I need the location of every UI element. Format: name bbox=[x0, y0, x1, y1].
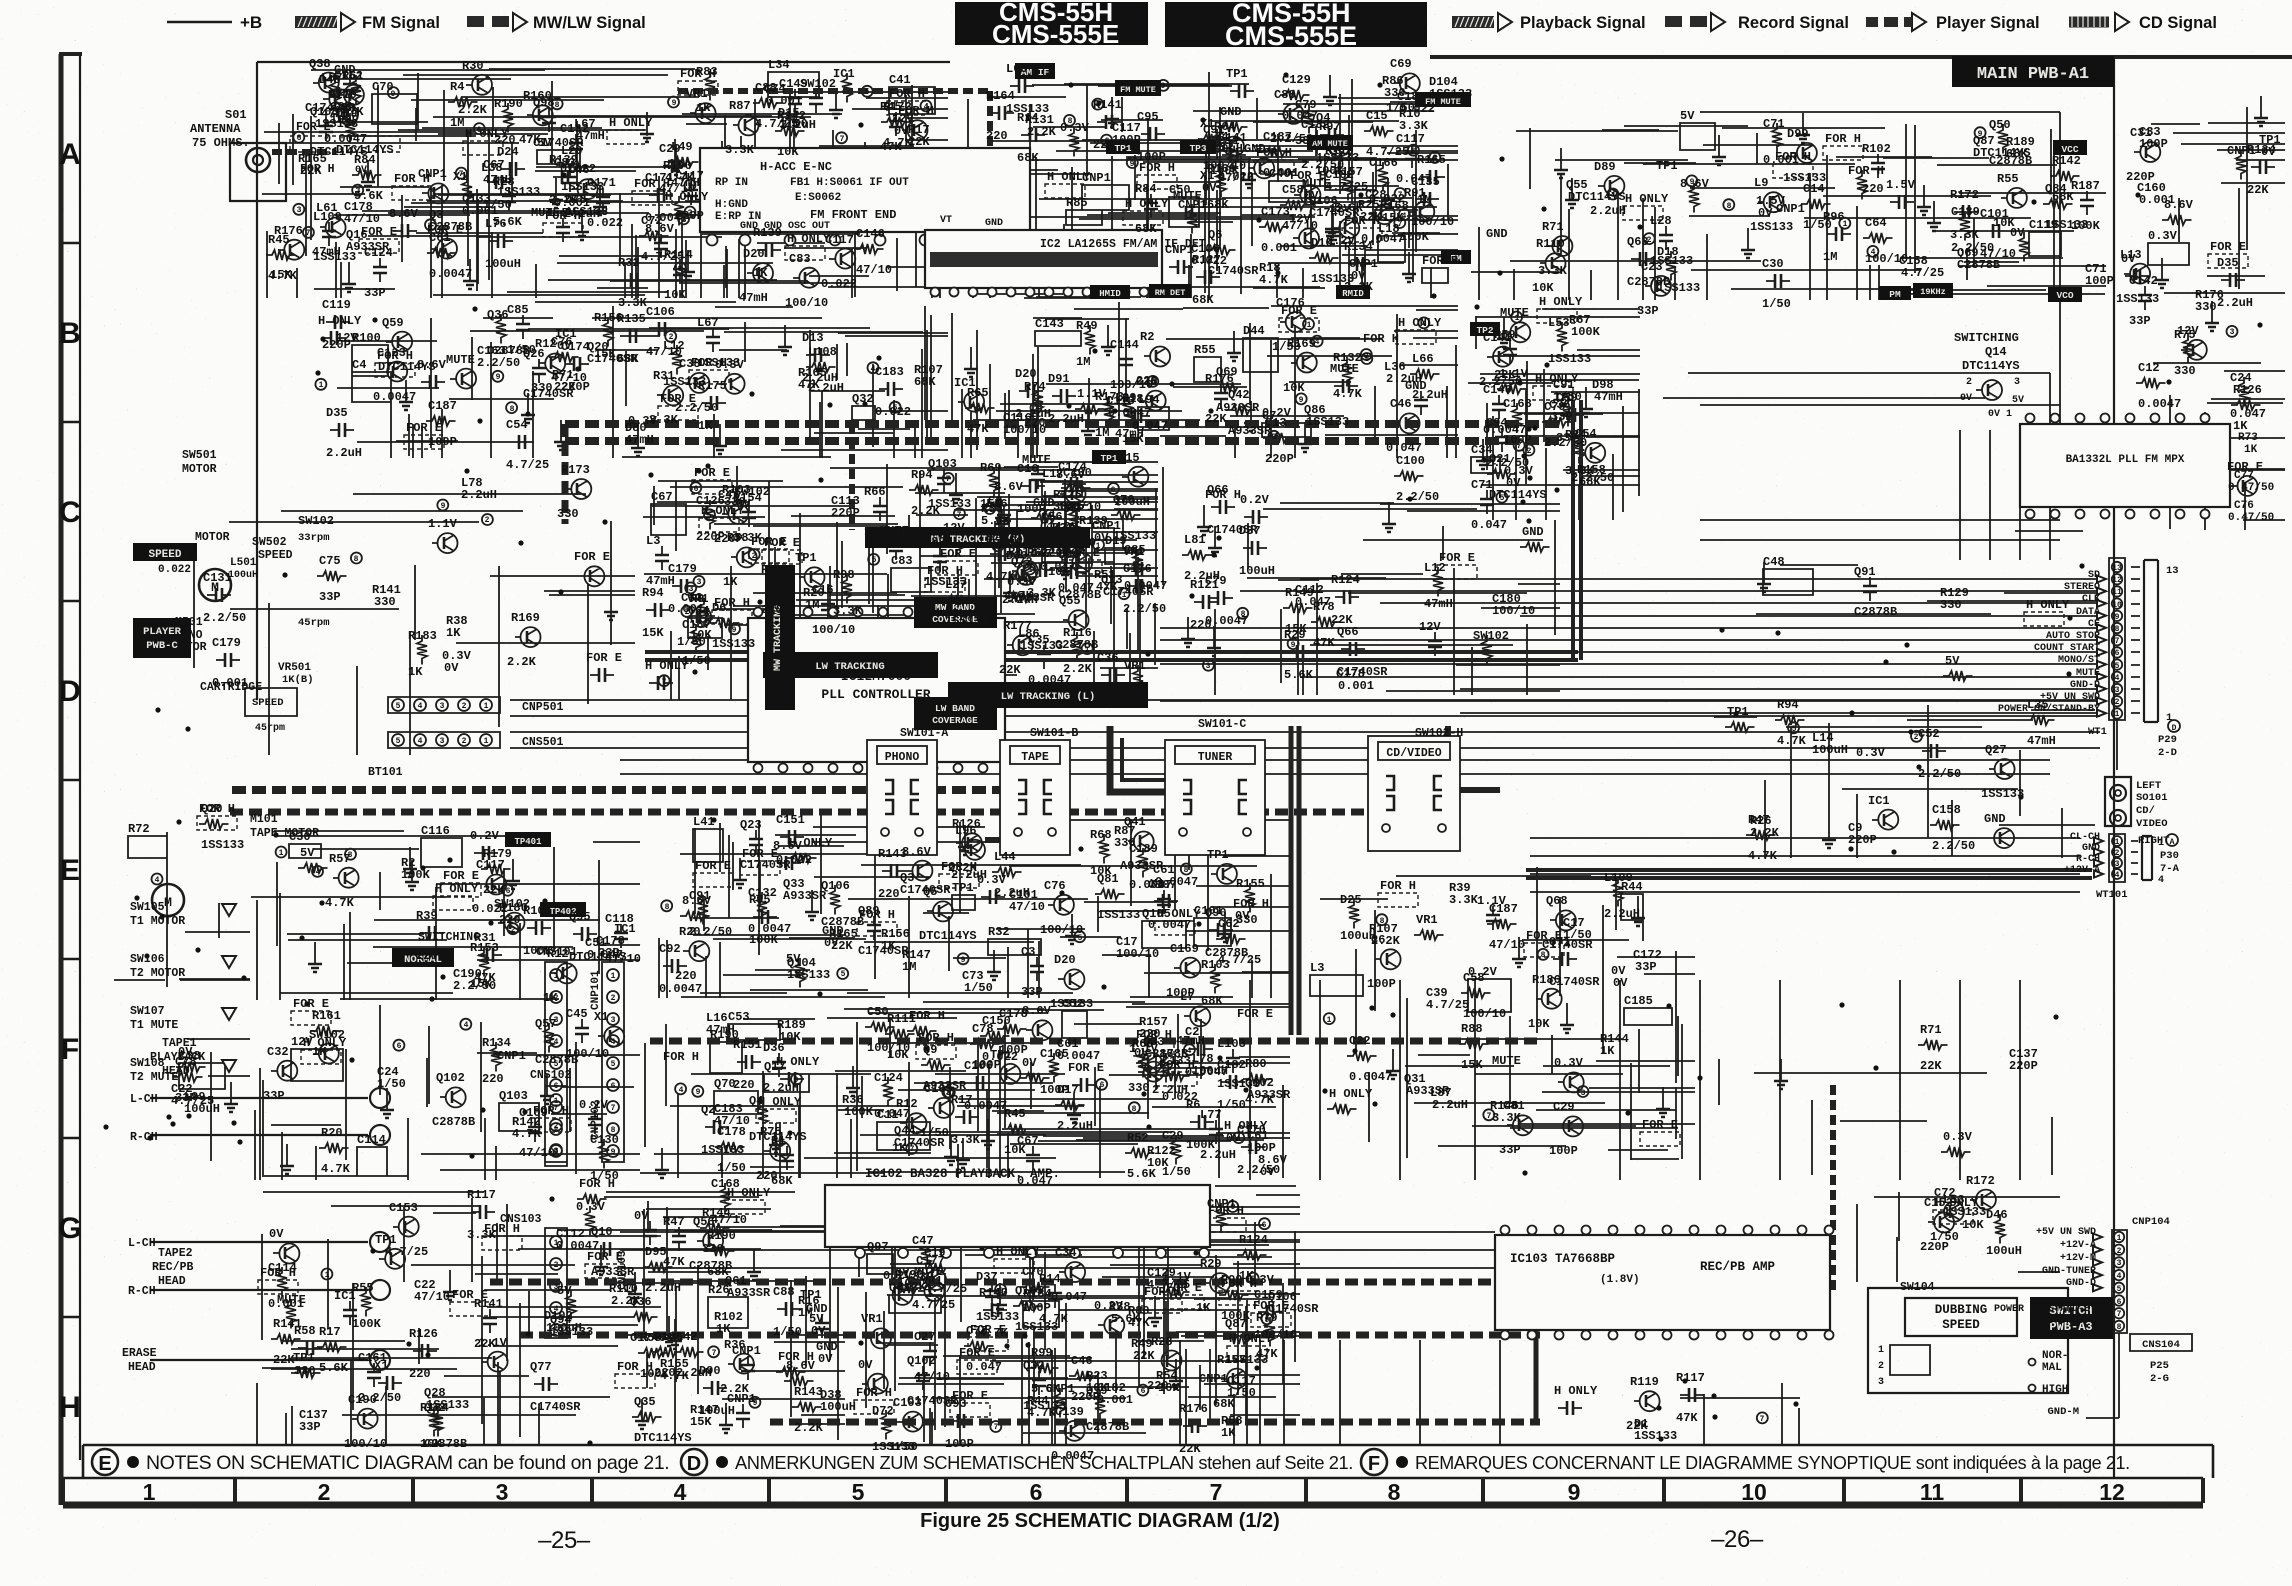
svg-text:L41: L41 bbox=[693, 815, 715, 829]
svg-text:SW102: SW102 bbox=[1473, 629, 1509, 643]
svg-text:L3: L3 bbox=[1310, 961, 1324, 975]
svg-text:3.3K: 3.3K bbox=[1565, 464, 1595, 478]
svg-text:6: 6 bbox=[2115, 649, 2120, 658]
svg-text:220: 220 bbox=[733, 1078, 755, 1092]
svg-text:5.6K: 5.6K bbox=[319, 1361, 349, 1375]
svg-text:FOR H: FOR H bbox=[1344, 214, 1380, 228]
svg-text:4: 4 bbox=[679, 1086, 684, 1095]
svg-text:3: 3 bbox=[2115, 686, 2120, 695]
svg-text:0.3V: 0.3V bbox=[1943, 1130, 1973, 1144]
svg-text:7: 7 bbox=[946, 475, 951, 484]
svg-text:3: 3 bbox=[2115, 860, 2120, 869]
svg-text:L65: L65 bbox=[1006, 62, 1028, 76]
svg-text:FOR H: FOR H bbox=[927, 564, 963, 578]
svg-text:0V: 0V bbox=[2010, 226, 2025, 240]
svg-text:8.6V: 8.6V bbox=[389, 207, 419, 221]
svg-text:9: 9 bbox=[441, 502, 446, 511]
svg-text:C123: C123 bbox=[377, 346, 406, 360]
svg-text:C2878B: C2878B bbox=[1058, 588, 1101, 602]
svg-text:1K: 1K bbox=[892, 1141, 907, 1155]
svg-text:Q41: Q41 bbox=[889, 1281, 911, 1295]
svg-text:FOR H: FOR H bbox=[909, 1009, 945, 1023]
svg-text:3: 3 bbox=[2230, 328, 2235, 337]
svg-text:DTC114YS: DTC114YS bbox=[1568, 190, 1626, 204]
svg-text:PLAYER: PLAYER bbox=[143, 626, 182, 638]
svg-text:R57: R57 bbox=[329, 852, 351, 866]
svg-text:C92: C92 bbox=[659, 942, 681, 956]
svg-text:2.2uH: 2.2uH bbox=[645, 1281, 681, 1295]
svg-text:2.2/50: 2.2/50 bbox=[1486, 456, 1529, 470]
svg-text:0.2V: 0.2V bbox=[470, 829, 500, 843]
svg-text:45rpm: 45rpm bbox=[298, 617, 330, 629]
svg-text:R156: R156 bbox=[594, 311, 623, 325]
svg-text:1/50: 1/50 bbox=[964, 981, 993, 995]
svg-text:4: 4 bbox=[2115, 674, 2120, 683]
svg-text:33rpm: 33rpm bbox=[298, 532, 330, 544]
svg-text:220: 220 bbox=[761, 603, 783, 617]
svg-text:100P: 100P bbox=[1017, 502, 1046, 516]
svg-text:FOR E: FOR E bbox=[1068, 1061, 1104, 1075]
svg-text:C40: C40 bbox=[1269, 167, 1291, 181]
svg-text:C117: C117 bbox=[476, 858, 505, 872]
svg-text:0.2V: 0.2V bbox=[1094, 1299, 1124, 1313]
svg-text:C165: C165 bbox=[1040, 1047, 1069, 1061]
svg-text:CNP101: CNP101 bbox=[590, 970, 602, 1010]
svg-text:10K: 10K bbox=[777, 145, 799, 159]
svg-text:1: 1 bbox=[2158, 838, 2164, 849]
svg-text:0.3V: 0.3V bbox=[1060, 121, 1090, 135]
svg-text:9: 9 bbox=[794, 1076, 799, 1085]
svg-text:R173: R173 bbox=[561, 463, 590, 477]
svg-text:0.047: 0.047 bbox=[2230, 407, 2266, 421]
svg-text:0.0047: 0.0047 bbox=[1349, 1070, 1392, 1084]
svg-text:2.2K: 2.2K bbox=[1027, 125, 1057, 139]
svg-text:TP1: TP1 bbox=[795, 551, 817, 565]
svg-text:D: D bbox=[59, 675, 81, 708]
svg-text:R99: R99 bbox=[1031, 1346, 1053, 1360]
svg-text:2: 2 bbox=[462, 702, 467, 711]
svg-text:8.6V: 8.6V bbox=[2164, 198, 2194, 212]
svg-text:C130: C130 bbox=[1063, 466, 1092, 480]
svg-text:L53: L53 bbox=[1548, 316, 1570, 330]
svg-text:R161: R161 bbox=[312, 1009, 341, 1023]
svg-text:9: 9 bbox=[1978, 130, 1983, 139]
svg-text:SW106: SW106 bbox=[130, 953, 165, 966]
svg-text:6: 6 bbox=[611, 1082, 616, 1091]
svg-text:D91: D91 bbox=[1048, 372, 1070, 386]
svg-text:SW101-B: SW101-B bbox=[1030, 727, 1078, 740]
svg-text:R66: R66 bbox=[864, 485, 886, 499]
svg-text:C35: C35 bbox=[1136, 375, 1158, 389]
svg-text:R31: R31 bbox=[474, 931, 496, 945]
svg-text:2.2uH: 2.2uH bbox=[994, 886, 1030, 900]
svg-text:0.3V: 0.3V bbox=[1856, 746, 1886, 760]
svg-text:1M: 1M bbox=[902, 960, 916, 974]
svg-text:2.2/50: 2.2/50 bbox=[203, 611, 246, 625]
svg-text:FOR H: FOR H bbox=[941, 860, 977, 874]
svg-text:C173: C173 bbox=[1261, 205, 1290, 219]
svg-text:C116: C116 bbox=[421, 824, 450, 838]
svg-text:2.2/50: 2.2/50 bbox=[1479, 375, 1522, 389]
svg-text:FOR H: FOR H bbox=[680, 67, 716, 81]
svg-text:H ONLY: H ONLY bbox=[1329, 1087, 1373, 1101]
svg-text:C83: C83 bbox=[789, 252, 811, 266]
svg-text:12V: 12V bbox=[943, 521, 965, 535]
svg-text:R176: R176 bbox=[1179, 1402, 1208, 1416]
svg-text:RP IN: RP IN bbox=[715, 177, 748, 189]
svg-text:1: 1 bbox=[554, 972, 559, 981]
svg-text:3.3K: 3.3K bbox=[1950, 228, 1980, 242]
svg-text:R61: R61 bbox=[1027, 546, 1049, 560]
svg-text:1K: 1K bbox=[716, 1322, 731, 1336]
svg-text:FOR H: FOR H bbox=[579, 1177, 615, 1191]
svg-text:C141: C141 bbox=[1483, 331, 1512, 345]
svg-text:1SS133: 1SS133 bbox=[2045, 218, 2088, 232]
svg-text:2: 2 bbox=[1878, 1361, 1884, 1372]
svg-text:L13: L13 bbox=[2120, 248, 2142, 262]
svg-text:IC1: IC1 bbox=[334, 1289, 356, 1303]
svg-text:C177: C177 bbox=[916, 1254, 945, 1268]
svg-text:100uH: 100uH bbox=[1239, 564, 1275, 578]
svg-text:R73: R73 bbox=[2238, 432, 2258, 444]
svg-text:1M: 1M bbox=[450, 116, 464, 130]
svg-text:8: 8 bbox=[678, 265, 683, 274]
svg-text:R26: R26 bbox=[708, 1283, 730, 1297]
svg-text:C30: C30 bbox=[1762, 257, 1784, 271]
svg-text:R164: R164 bbox=[986, 89, 1015, 103]
svg-text:C131: C131 bbox=[203, 571, 232, 585]
svg-text:H ONLY: H ONLY bbox=[1398, 316, 1442, 330]
svg-text:LW BAND: LW BAND bbox=[935, 703, 975, 714]
svg-text:C83: C83 bbox=[891, 554, 913, 568]
svg-text:1/50: 1/50 bbox=[1386, 101, 1415, 115]
svg-text:Q32: Q32 bbox=[424, 1401, 446, 1415]
svg-text:IC1: IC1 bbox=[833, 67, 855, 81]
svg-text:47/10: 47/10 bbox=[914, 1370, 950, 1384]
svg-text:C: C bbox=[59, 496, 81, 529]
svg-text:LW TRACKING (L): LW TRACKING (L) bbox=[1001, 691, 1096, 703]
svg-text:1.1V: 1.1V bbox=[428, 517, 458, 531]
svg-text:1/50: 1/50 bbox=[773, 1325, 802, 1339]
svg-text:4.7/25: 4.7/25 bbox=[912, 1298, 955, 1312]
svg-text:D6: D6 bbox=[712, 601, 726, 615]
svg-text:47mH: 47mH bbox=[1424, 597, 1453, 611]
svg-text:SD: SD bbox=[2088, 570, 2100, 581]
svg-text:15K: 15K bbox=[1122, 432, 1144, 446]
svg-text:C16: C16 bbox=[1017, 462, 1039, 476]
svg-text:C4: C4 bbox=[352, 358, 366, 372]
svg-text:22K: 22K bbox=[1179, 1442, 1201, 1456]
svg-text:A933SR: A933SR bbox=[1228, 424, 1272, 438]
svg-text:C144: C144 bbox=[1110, 338, 1139, 352]
svg-text:1: 1 bbox=[2117, 1234, 2122, 1243]
svg-text:R110: R110 bbox=[1536, 237, 1565, 251]
svg-text:PLL CONTROLLER: PLL CONTROLLER bbox=[821, 687, 930, 702]
svg-text:4: 4 bbox=[2158, 875, 2164, 886]
svg-text:C189: C189 bbox=[1951, 205, 1980, 219]
svg-text:2.2/50: 2.2/50 bbox=[477, 356, 520, 370]
svg-text:33P: 33P bbox=[2129, 314, 2151, 328]
svg-text:C1740SR: C1740SR bbox=[900, 883, 951, 897]
svg-text:L9: L9 bbox=[1754, 176, 1768, 190]
svg-text:R88: R88 bbox=[1461, 1022, 1483, 1036]
svg-text:47/10: 47/10 bbox=[414, 1290, 450, 1304]
svg-text:0.047: 0.047 bbox=[1051, 1290, 1087, 1304]
svg-text:22K: 22K bbox=[908, 135, 930, 149]
svg-text:220: 220 bbox=[675, 969, 697, 983]
svg-text:FOR E: FOR E bbox=[660, 392, 696, 406]
svg-text:47mH: 47mH bbox=[576, 129, 605, 143]
svg-text:CNP501: CNP501 bbox=[522, 701, 564, 714]
svg-text:R28: R28 bbox=[493, 175, 515, 189]
svg-text:3: 3 bbox=[356, 187, 361, 196]
svg-text:2: 2 bbox=[752, 552, 757, 561]
svg-text:2.2K: 2.2K bbox=[1750, 826, 1780, 840]
svg-text:R17: R17 bbox=[951, 1093, 973, 1107]
svg-text:Q95: Q95 bbox=[569, 910, 591, 924]
svg-text:R68: R68 bbox=[1090, 828, 1112, 842]
svg-text:12: 12 bbox=[2112, 576, 2122, 585]
svg-text:–26–: –26– bbox=[1711, 1526, 1764, 1553]
svg-text:2.2uH: 2.2uH bbox=[1057, 1119, 1093, 1133]
svg-text:R79: R79 bbox=[1256, 1311, 1278, 1325]
svg-text:15K: 15K bbox=[642, 626, 664, 640]
svg-text:1SS133: 1SS133 bbox=[787, 968, 830, 982]
svg-text:1/50: 1/50 bbox=[677, 635, 706, 649]
svg-text:7: 7 bbox=[1517, 442, 1522, 451]
svg-text:0.022: 0.022 bbox=[158, 564, 191, 576]
svg-text:100P: 100P bbox=[1040, 1083, 1069, 1097]
svg-text:3: 3 bbox=[1206, 662, 1211, 671]
svg-text:1: 1 bbox=[2166, 712, 2172, 724]
svg-text:FOR E: FOR E bbox=[1290, 169, 1326, 183]
svg-text:Q27: Q27 bbox=[1985, 743, 2007, 757]
svg-text:C190: C190 bbox=[348, 1393, 377, 1407]
svg-text:C114: C114 bbox=[357, 1133, 386, 1147]
svg-text:0.022: 0.022 bbox=[1191, 254, 1227, 268]
svg-text:9: 9 bbox=[1161, 82, 1166, 91]
svg-text:100uH: 100uH bbox=[699, 1404, 735, 1418]
svg-text:X1: X1 bbox=[1150, 877, 1164, 891]
svg-text:4: 4 bbox=[418, 702, 423, 711]
svg-text:220P: 220P bbox=[1071, 1390, 1100, 1404]
svg-text:RIGHT: RIGHT bbox=[2138, 835, 2170, 847]
svg-text:R89: R89 bbox=[761, 563, 783, 577]
svg-text:47K: 47K bbox=[1313, 636, 1335, 650]
svg-text:FB1 H:S0061 IF OUT: FB1 H:S0061 IF OUT bbox=[790, 177, 909, 189]
svg-text:2.2/50: 2.2/50 bbox=[1396, 490, 1439, 504]
svg-text:R117: R117 bbox=[467, 1188, 496, 1202]
svg-text:Player Signal: Player Signal bbox=[1936, 14, 2040, 32]
svg-text:SW102: SW102 bbox=[800, 77, 836, 91]
svg-text:R142: R142 bbox=[777, 109, 806, 123]
svg-text:C2878B: C2878B bbox=[424, 1437, 467, 1451]
svg-text:R31: R31 bbox=[653, 369, 675, 383]
svg-text:C143: C143 bbox=[1035, 317, 1064, 331]
svg-text:C187: C187 bbox=[1489, 902, 1518, 916]
svg-text:10K: 10K bbox=[1004, 1143, 1026, 1157]
svg-text:A: A bbox=[2170, 838, 2175, 847]
svg-text:L57: L57 bbox=[321, 71, 343, 85]
svg-text:FOR E: FOR E bbox=[1642, 1118, 1678, 1132]
svg-text:5.6K: 5.6K bbox=[981, 514, 1011, 528]
svg-text:C2878B: C2878B bbox=[1055, 638, 1098, 652]
svg-text:47/10: 47/10 bbox=[714, 1114, 750, 1128]
svg-text:0.047: 0.047 bbox=[1295, 595, 1331, 609]
svg-text:D25: D25 bbox=[1340, 893, 1362, 907]
svg-text:5: 5 bbox=[852, 1479, 865, 1505]
svg-text:C76: C76 bbox=[1044, 879, 1066, 893]
svg-text:10K: 10K bbox=[1048, 565, 1070, 579]
svg-text:0.47/50: 0.47/50 bbox=[2228, 512, 2274, 524]
svg-text:C29: C29 bbox=[1553, 1100, 1575, 1114]
svg-text:A933SR: A933SR bbox=[727, 1286, 771, 1300]
svg-text:2.2uH: 2.2uH bbox=[326, 446, 362, 460]
svg-text:C12: C12 bbox=[2138, 361, 2160, 375]
svg-text:H ONLY: H ONLY bbox=[303, 1036, 347, 1050]
svg-text:R45: R45 bbox=[268, 233, 290, 247]
svg-text:FOR E: FOR E bbox=[694, 466, 730, 480]
svg-text:1/50: 1/50 bbox=[1803, 218, 1832, 232]
svg-text:D18: D18 bbox=[1657, 245, 1679, 259]
svg-text:GND: GND bbox=[1405, 379, 1427, 393]
svg-text:2.2/50: 2.2/50 bbox=[1932, 839, 1975, 853]
svg-text:D10: D10 bbox=[1311, 236, 1333, 250]
svg-text:C124: C124 bbox=[364, 246, 393, 260]
svg-text:10K: 10K bbox=[1283, 381, 1305, 395]
svg-text:5.6K: 5.6K bbox=[1127, 1167, 1157, 1181]
svg-text:0V: 0V bbox=[1351, 269, 1366, 283]
svg-text:1.5V: 1.5V bbox=[1886, 178, 1916, 192]
svg-text:CNP1: CNP1 bbox=[497, 1049, 526, 1063]
svg-text:5: 5 bbox=[865, 88, 870, 97]
svg-text:2.2uH: 2.2uH bbox=[1048, 412, 1084, 426]
svg-text:C2878B: C2878B bbox=[1086, 1420, 1129, 1434]
svg-text:100/10: 100/10 bbox=[1116, 947, 1159, 961]
svg-text:H ONLY: H ONLY bbox=[1125, 197, 1169, 211]
svg-text:F: F bbox=[1368, 1453, 1380, 1475]
svg-text:Q90: Q90 bbox=[1058, 548, 1080, 562]
svg-text:75 OHMS.: 75 OHMS. bbox=[192, 136, 250, 150]
svg-text:REC/PB AMP: REC/PB AMP bbox=[1700, 1260, 1775, 1274]
svg-text:Q63: Q63 bbox=[1627, 235, 1649, 249]
svg-text:R6: R6 bbox=[1186, 1098, 1200, 1112]
svg-text:C176: C176 bbox=[1123, 562, 1152, 576]
svg-text:SPEED: SPEED bbox=[258, 549, 293, 562]
svg-text:R87: R87 bbox=[729, 99, 751, 113]
svg-text:FOR E: FOR E bbox=[1237, 1007, 1273, 1021]
svg-text:2: 2 bbox=[554, 1261, 559, 1270]
svg-text:SO101: SO101 bbox=[2136, 792, 2168, 804]
svg-text:C2878B: C2878B bbox=[821, 915, 864, 929]
svg-text:330: 330 bbox=[2174, 364, 2196, 378]
svg-text:L96: L96 bbox=[955, 824, 977, 838]
svg-text:4: 4 bbox=[1315, 338, 1320, 347]
svg-text:R14: R14 bbox=[1039, 1272, 1061, 1286]
svg-text:R143: R143 bbox=[794, 1385, 823, 1399]
svg-text:A: A bbox=[59, 138, 81, 171]
svg-text:HMID: HMID bbox=[1099, 289, 1121, 299]
svg-text:4: 4 bbox=[1611, 191, 1616, 200]
svg-text:R39: R39 bbox=[416, 909, 438, 923]
svg-text:3: 3 bbox=[2014, 377, 2020, 388]
svg-text:H ONLY: H ONLY bbox=[1047, 170, 1091, 184]
svg-text:P25: P25 bbox=[2150, 1360, 2169, 1372]
svg-text:R124: R124 bbox=[1331, 573, 1360, 587]
svg-text:1: 1 bbox=[2115, 838, 2120, 847]
svg-text:C2878B: C2878B bbox=[689, 1259, 732, 1273]
svg-text:C24: C24 bbox=[2230, 371, 2252, 385]
svg-text:220: 220 bbox=[409, 1367, 431, 1381]
svg-text:10K: 10K bbox=[1528, 1017, 1550, 1031]
svg-text:1K: 1K bbox=[2244, 444, 2258, 456]
svg-text:0.3V: 0.3V bbox=[1554, 1056, 1584, 1070]
svg-text:L34: L34 bbox=[768, 58, 790, 72]
svg-text:330: 330 bbox=[2195, 300, 2217, 314]
svg-text:FOR E: FOR E bbox=[361, 225, 397, 239]
svg-text:330: 330 bbox=[1128, 1081, 1150, 1095]
svg-text:330: 330 bbox=[531, 381, 553, 395]
svg-text:H ONLY: H ONLY bbox=[1935, 1196, 1979, 1210]
svg-text:C106: C106 bbox=[646, 305, 675, 319]
svg-text:GND: GND bbox=[1486, 227, 1508, 241]
svg-text:REC/PB: REC/PB bbox=[152, 1261, 194, 1274]
svg-text:3.3K: 3.3K bbox=[1492, 1111, 1522, 1125]
svg-text:Q17: Q17 bbox=[764, 1060, 786, 1074]
svg-text:R126: R126 bbox=[2233, 383, 2262, 397]
svg-text:G: G bbox=[58, 1212, 81, 1245]
svg-text:10K: 10K bbox=[1158, 1381, 1180, 1395]
svg-text:47/10: 47/10 bbox=[1009, 900, 1045, 914]
svg-text:13: 13 bbox=[2166, 565, 2179, 577]
svg-text:47mH: 47mH bbox=[986, 537, 1015, 551]
svg-text:HIGH: HIGH bbox=[2042, 1384, 2068, 1396]
svg-text:VR1: VR1 bbox=[861, 1312, 883, 1326]
svg-text:4: 4 bbox=[611, 1038, 616, 1047]
svg-text:0.0047: 0.0047 bbox=[1108, 406, 1151, 420]
svg-text:C46: C46 bbox=[1071, 1354, 1093, 1368]
svg-text:MUTE: MUTE bbox=[1492, 1054, 1521, 1068]
svg-text:X1: X1 bbox=[453, 170, 467, 184]
svg-text:Q91: Q91 bbox=[1854, 565, 1876, 579]
svg-text:E:S0062: E:S0062 bbox=[795, 192, 841, 204]
svg-text:R124: R124 bbox=[1239, 1233, 1268, 1247]
svg-text:5: 5 bbox=[2115, 662, 2120, 671]
svg-text:A933SR: A933SR bbox=[1216, 401, 1260, 415]
svg-text:Q32: Q32 bbox=[1023, 1359, 1045, 1373]
svg-text:C85: C85 bbox=[1124, 543, 1146, 557]
svg-text:SW107: SW107 bbox=[130, 1005, 165, 1018]
svg-text:FOR H: FOR H bbox=[856, 1386, 892, 1400]
svg-text:1K: 1K bbox=[1196, 1301, 1211, 1315]
svg-text:TP1: TP1 bbox=[1727, 705, 1749, 719]
svg-text:4.7K: 4.7K bbox=[1333, 387, 1363, 401]
svg-text:C79: C79 bbox=[1205, 574, 1227, 588]
svg-text:R75: R75 bbox=[760, 1125, 782, 1139]
svg-text:VR501: VR501 bbox=[278, 662, 311, 674]
svg-text:FOR E: FOR E bbox=[1281, 304, 1317, 318]
svg-text:45rpm: 45rpm bbox=[255, 723, 285, 734]
svg-text:22K: 22K bbox=[1133, 1349, 1155, 1363]
svg-text:CD ON/OFF: CD ON/OFF bbox=[2042, 1315, 2096, 1327]
svg-text:0.47/50: 0.47/50 bbox=[2228, 482, 2274, 494]
svg-text:0V: 0V bbox=[1260, 1165, 1275, 1179]
svg-text:0V: 0V bbox=[444, 661, 459, 675]
svg-text:Q36: Q36 bbox=[630, 1295, 652, 1309]
svg-text:Playback Signal: Playback Signal bbox=[1520, 14, 1646, 32]
svg-text:C119: C119 bbox=[322, 298, 351, 312]
svg-text:1SS133: 1SS133 bbox=[1981, 787, 2024, 801]
